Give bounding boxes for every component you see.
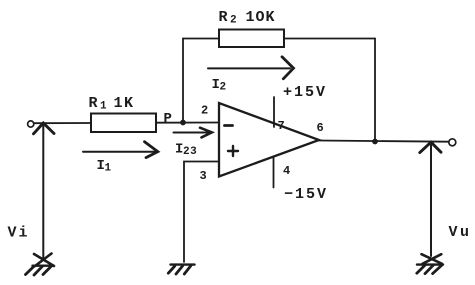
pin 4 supply line <box>273 158 275 188</box>
svg-text:3: 3 <box>200 169 207 183</box>
svg-text:P: P <box>164 111 172 127</box>
wire feedback top left segment <box>183 38 219 40</box>
wire input terminal to R1 <box>34 122 91 124</box>
svg-text:1: 1 <box>105 163 112 175</box>
svg-text:1: 1 <box>100 101 107 113</box>
wire pin 3 to ground <box>184 162 219 263</box>
label I2 <box>212 77 227 94</box>
plus sign non-inverting input <box>228 146 238 156</box>
label I1 <box>97 158 112 175</box>
svg-text:R: R <box>89 95 98 112</box>
svg-text:23: 23 <box>183 146 197 158</box>
voltage arrow Vi <box>34 123 55 258</box>
pin 7 supply line <box>273 97 275 127</box>
wire output <box>319 141 449 142</box>
resistor R2 <box>219 30 284 48</box>
svg-text:7: 7 <box>278 119 285 133</box>
wire feedback vertical from P <box>182 39 184 123</box>
svg-text:−15V: −15V <box>284 186 328 203</box>
current arrow I23 <box>174 128 212 138</box>
wire feedback top right segment <box>284 38 375 40</box>
svg-text:6: 6 <box>317 121 324 135</box>
current arrow I2 <box>208 57 294 79</box>
svg-text:2: 2 <box>201 104 208 118</box>
junction dot output <box>372 139 378 145</box>
svg-text:1K: 1K <box>114 95 135 112</box>
resistor R1 <box>91 114 156 133</box>
ground right <box>417 254 443 273</box>
input terminal circle <box>28 121 34 127</box>
svg-text:Vu: Vu <box>449 224 472 241</box>
svg-text:Vi: Vi <box>8 225 30 242</box>
node P <box>180 120 186 126</box>
svg-text:R: R <box>219 9 228 26</box>
svg-text:+15V: +15V <box>283 84 327 101</box>
svg-text:1OK: 1OK <box>246 9 276 26</box>
label R1 1K <box>89 95 135 113</box>
ground middle <box>168 265 194 274</box>
svg-text:2: 2 <box>220 82 227 94</box>
current arrow I1 <box>83 142 158 158</box>
output terminal circle <box>449 139 456 146</box>
label R2 10K <box>219 9 276 27</box>
svg-text:2: 2 <box>230 15 237 27</box>
minus sign inverting input <box>225 124 233 127</box>
wire feedback right vertical <box>374 39 376 142</box>
op-amp U1 triangle <box>219 103 319 177</box>
label I23 <box>175 142 197 159</box>
wire R1 to node P and pin 2 <box>156 122 219 124</box>
voltage arrow Vu <box>420 142 441 256</box>
svg-text:4: 4 <box>283 164 290 178</box>
ground left <box>26 254 55 276</box>
